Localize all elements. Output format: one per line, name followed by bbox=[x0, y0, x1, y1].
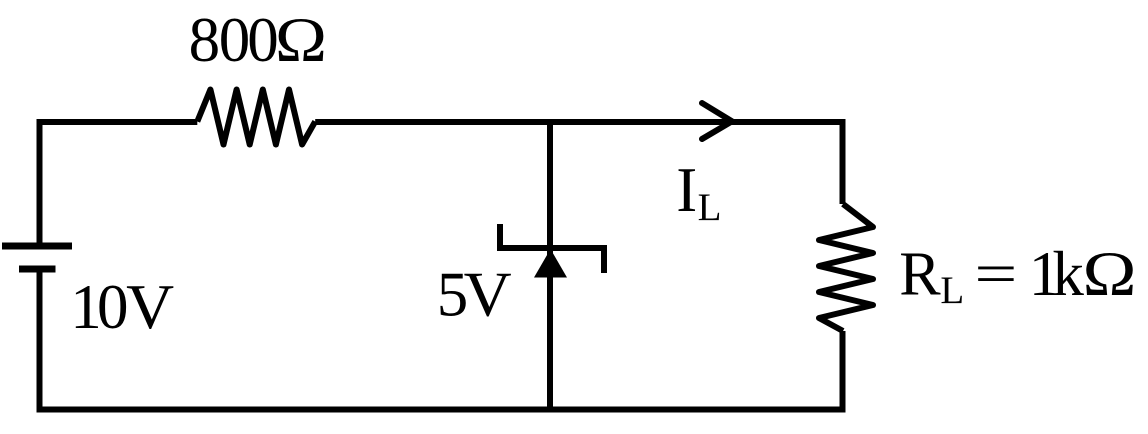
arrow IL current direction on top wire bbox=[702, 103, 732, 139]
svg-text:5V: 5V bbox=[437, 260, 512, 330]
svg-text:R: R bbox=[899, 240, 941, 308]
svg-text:1kΩ: 1kΩ bbox=[1029, 239, 1137, 309]
wire right vertical lower bbox=[840, 331, 846, 412]
svg-text:L: L bbox=[940, 269, 964, 312]
wire top from resistor to right corner bbox=[315, 119, 842, 125]
wire zener branch vertical bbox=[547, 122, 553, 410]
resistor R1 800ohm (horizontal zigzag) bbox=[197, 90, 315, 145]
wire top-left loop: left vertical upper + top wire to resistor bbox=[40, 122, 198, 246]
battery V1 short plate (negative) bbox=[19, 266, 56, 273]
wire right vertical upper bbox=[840, 119, 846, 204]
battery V1 long plate (positive) bbox=[2, 243, 72, 250]
zener diode D1 anode triangle bbox=[534, 249, 567, 278]
wire bottom bbox=[37, 407, 846, 413]
resistor RL 1k (vertical zigzag) bbox=[819, 204, 873, 331]
svg-text:=: = bbox=[974, 241, 1017, 306]
wire left vertical lower bbox=[37, 269, 43, 412]
svg-text:I: I bbox=[676, 155, 697, 225]
svg-text:800Ω: 800Ω bbox=[189, 5, 327, 75]
svg-text:L: L bbox=[698, 186, 722, 229]
zener diode D1 cathode bar with bent ends bbox=[500, 224, 604, 273]
svg-text:10V: 10V bbox=[70, 272, 174, 342]
